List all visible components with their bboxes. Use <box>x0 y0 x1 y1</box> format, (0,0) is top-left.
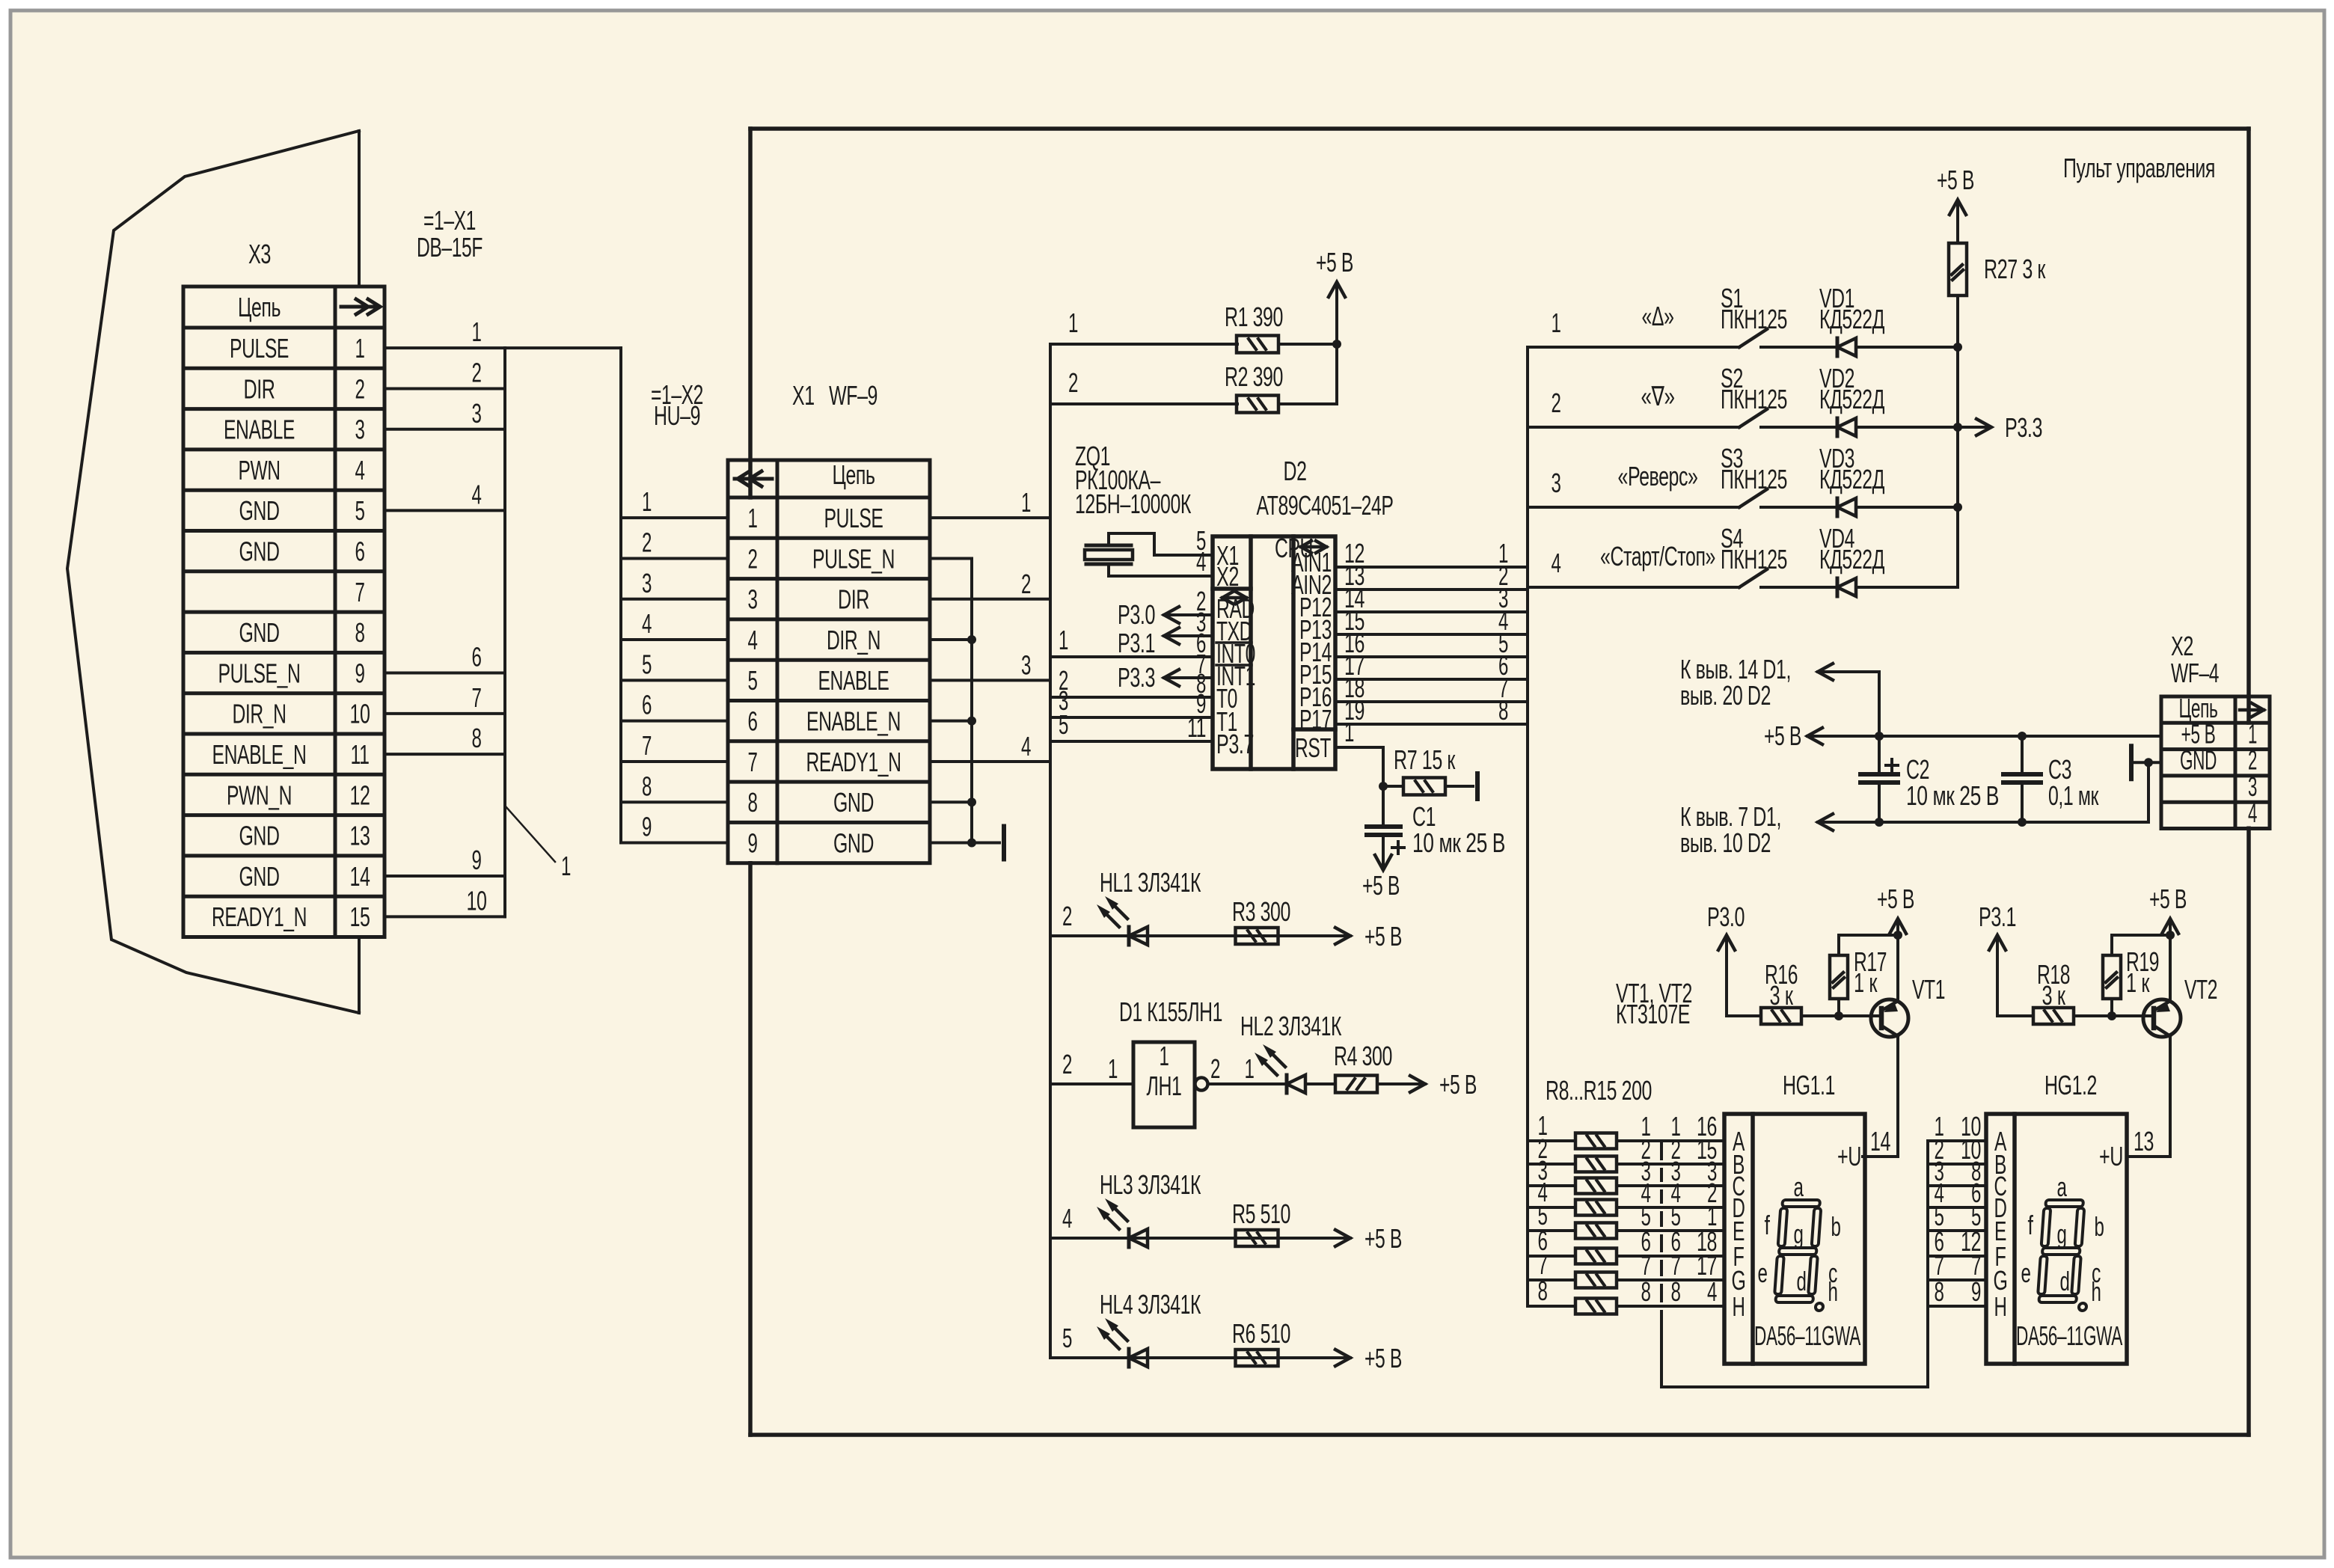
svg-text:1: 1 <box>1552 307 1561 338</box>
svg-text:WF–4: WF–4 <box>2171 658 2219 688</box>
resistor R17 <box>1830 955 1848 999</box>
svg-text:+U: +U <box>1837 1141 1861 1172</box>
resistor R9 <box>1575 1157 1617 1172</box>
svg-text:+5 В: +5 В <box>1364 1223 1402 1254</box>
svg-text:+5 В: +5 В <box>1439 1069 1477 1100</box>
svg-text:DB–15F: DB–15F <box>417 232 483 263</box>
wire R2 to +5V node <box>1278 344 1337 404</box>
junction +5V node <box>1332 340 1341 349</box>
wire CPU P12 pin 14 (net 3) <box>1335 610 1528 613</box>
junction RST node <box>1379 782 1388 791</box>
wire bus to INT0 <box>1050 655 1213 658</box>
wire X3 pin 15 (net 10) <box>385 915 505 918</box>
svg-text:f: f <box>1765 1210 1771 1240</box>
junction <box>2144 758 2153 767</box>
switch S3 ПКН125 <box>1739 489 1767 507</box>
wire X3 pin 5 (net 4) <box>385 509 505 512</box>
wire R14 to HG1.1 pin 17 <box>1617 1278 1724 1281</box>
wire net 2 to R2 <box>1050 402 1237 405</box>
svg-text:HG1.2: HG1.2 <box>2044 1070 2097 1100</box>
svg-text:9: 9 <box>355 658 365 688</box>
svg-text:ENABLE_N: ENABLE_N <box>212 739 307 770</box>
svg-text:2: 2 <box>1210 1053 1220 1084</box>
wire D1 out to HL2 <box>1208 1082 1287 1085</box>
wire harness net 6 to R13 <box>1528 1255 1575 1258</box>
wire VT1 collector to HG1.1 +U <box>1863 1036 1898 1157</box>
svg-text:PULSE: PULSE <box>230 333 289 364</box>
svg-text:GND: GND <box>239 536 280 567</box>
junction <box>2018 818 2027 827</box>
svg-text:HL4 ЗЛ341К: HL4 ЗЛ341К <box>1100 1289 1201 1320</box>
svg-text:12: 12 <box>350 780 370 810</box>
svg-text:6: 6 <box>748 706 758 737</box>
wire harness net 5 to R12 <box>1528 1229 1575 1232</box>
switch S2 ПКН125 <box>1739 409 1767 427</box>
wire harness net 5 to HG1.2 pin 5 <box>1928 1229 1986 1232</box>
svg-text:7: 7 <box>355 577 365 607</box>
resistor R19 <box>2103 955 2121 999</box>
wire CPU P16 pin 18 (net 7) <box>1335 700 1528 703</box>
svg-text:GND: GND <box>239 861 280 892</box>
wire cable net 4 to X1 pin 4 <box>621 638 728 641</box>
svg-text:P3.0: P3.0 <box>1707 901 1745 932</box>
wire P3.1 arrow up <box>1996 937 1999 1016</box>
svg-text:P17: P17 <box>1299 704 1332 735</box>
svg-text:«Δ»: «Δ» <box>1642 301 1674 331</box>
svg-text:h: h <box>1828 1276 1838 1307</box>
X1 header socket symbol <box>735 477 772 481</box>
wire bus to T0 <box>1050 696 1213 699</box>
wire X1 DIR (net 2) <box>930 598 1050 601</box>
svg-text:f: f <box>2028 1210 2034 1240</box>
svg-text:+5 В: +5 В <box>2149 883 2187 914</box>
transistor VT1 КТ3107Е <box>1871 999 1908 1037</box>
resistor R16 <box>1761 1008 1801 1024</box>
wire X1 ENABLE (net 3) <box>930 679 1050 682</box>
wire stub X1 GND <box>930 800 972 803</box>
svg-text:d: d <box>1797 1266 1807 1296</box>
svg-text:10: 10 <box>467 885 487 916</box>
wire cable net 5 to X1 pin 5 <box>621 679 728 682</box>
svg-text:10 мк 25 В: 10 мк 25 В <box>1906 780 1999 811</box>
resistor R18 <box>2033 1008 2074 1024</box>
capacitor C2 <box>1878 736 1881 774</box>
svg-text:AT89C4051–24P: AT89C4051–24P <box>1257 490 1394 521</box>
wire stub X1 DIR_N <box>930 638 972 641</box>
svg-text:R5 510: R5 510 <box>1232 1198 1290 1229</box>
svg-text:g: g <box>1794 1219 1804 1249</box>
svg-text:ENABLE_N: ENABLE_N <box>806 706 901 737</box>
svg-text:14: 14 <box>1870 1126 1890 1157</box>
wire VD2 to key bus <box>1856 426 1958 429</box>
svg-text:5: 5 <box>355 495 365 526</box>
svg-text:2: 2 <box>1062 901 1072 931</box>
svg-text:выв. 10 D2: выв. 10 D2 <box>1680 827 1771 858</box>
svg-text:X2: X2 <box>2171 631 2193 661</box>
junction <box>1953 343 1962 352</box>
wire R17 to +5V <box>1839 935 1898 955</box>
junction <box>1893 931 1902 940</box>
svg-text:a: a <box>2057 1172 2068 1202</box>
svg-text:VT2: VT2 <box>2184 974 2217 1005</box>
svg-text:13: 13 <box>350 821 370 851</box>
svg-text:8: 8 <box>1935 1276 1944 1307</box>
svg-text:1: 1 <box>1344 717 1354 747</box>
wire harness net 6 to HG1.2 pin 12 <box>1928 1255 1986 1258</box>
svg-text:2: 2 <box>355 373 365 404</box>
svg-text:+5 В: +5 В <box>1364 921 1402 952</box>
microcontroller D2 AT89C4051-24P <box>1213 536 1335 769</box>
svg-text:DIR_N: DIR_N <box>827 625 880 655</box>
svg-text:GND: GND <box>239 495 280 526</box>
cable bus (=1-X2 side) <box>503 348 506 916</box>
svg-text:КД522Д: КД522Д <box>1819 304 1884 334</box>
wire R18 to VT2 base <box>2074 1014 2150 1017</box>
svg-text:d: d <box>2060 1266 2070 1296</box>
resistor R2 <box>1237 396 1278 413</box>
svg-text:P3.1: P3.1 <box>1118 628 1155 658</box>
svg-text:X3: X3 <box>248 239 271 269</box>
svg-text:DIR: DIR <box>838 584 869 615</box>
svg-text:4: 4 <box>642 608 652 639</box>
svg-text:R3 300: R3 300 <box>1232 896 1290 927</box>
segment harness bottom link <box>1661 1385 1928 1388</box>
segment harness HG1.1 side <box>1660 1141 1663 1159</box>
wire R13 to HG1.1 pin 18 <box>1617 1255 1724 1258</box>
svg-text:8: 8 <box>472 723 482 753</box>
wire R7 to ground <box>1445 785 1473 788</box>
LED HL2 <box>1285 1075 1289 1093</box>
capacitor C3 <box>2021 736 2024 774</box>
svg-text:+5 В: +5 В <box>1764 720 1801 751</box>
wire harness net 4 to HG1.2 pin 6 <box>1928 1206 1986 1209</box>
svg-text:3: 3 <box>748 584 758 615</box>
svg-text:+5 В: +5 В <box>1877 883 1914 914</box>
svg-text:R27 3 к: R27 3 к <box>1984 254 2046 284</box>
power +5V arrow VT1 <box>1896 922 1899 935</box>
CPU port direction arrows <box>1301 545 1326 549</box>
svg-text:4: 4 <box>748 625 758 655</box>
wire CPU AIN2 pin 13 (net 2) <box>1335 588 1528 591</box>
svg-text:2: 2 <box>472 357 482 388</box>
power +5V arrow R27 <box>1956 203 1959 243</box>
wire stub X1 PULSE_N <box>930 557 972 560</box>
svg-text:8: 8 <box>1538 1275 1548 1306</box>
control panel box (Пульт управления) <box>750 126 2249 131</box>
LED HL3 <box>1127 1229 1131 1247</box>
svg-text:КД522Д: КД522Д <box>1819 464 1884 494</box>
wire ground rail <box>1818 821 2148 824</box>
wire harness net 2 to R9 <box>1528 1163 1575 1166</box>
svg-text:PWN: PWN <box>239 455 281 486</box>
svg-text:КД522Д: КД522Д <box>1819 384 1884 414</box>
wire harness net 8 to HG1.2 pin 9 <box>1928 1305 1986 1308</box>
svg-text:12БН–10000К: 12БН–10000К <box>1075 489 1191 519</box>
switch S1 ПКН125 <box>1739 329 1767 347</box>
wire harness net 3 to HG1.2 pin 8 <box>1928 1184 1986 1187</box>
svg-text:4: 4 <box>1707 1276 1717 1307</box>
svg-text:b: b <box>1831 1211 1841 1242</box>
svg-text:«Старт/Стоп»: «Старт/Стоп» <box>1600 541 1715 572</box>
wire X3 pin 10 (net 7) <box>385 712 505 715</box>
svg-text:9: 9 <box>1971 1276 1981 1307</box>
7-segment display HG1.1 DA56-11GWA <box>1724 1114 1865 1364</box>
svg-text:+U: +U <box>2099 1141 2123 1172</box>
junction <box>967 797 976 806</box>
junction <box>967 635 976 644</box>
cable shield outline for X3 <box>67 131 359 1013</box>
svg-text:ПКН125: ПКН125 <box>1721 544 1787 575</box>
svg-text:DA56–11GWA: DA56–11GWA <box>1754 1320 1860 1351</box>
svg-text:X1 WF–9: X1 WF–9 <box>792 380 877 411</box>
wire X3 pin 9 (net 6) <box>385 672 505 675</box>
ground tick X1 <box>972 842 999 845</box>
svg-text:h: h <box>2092 1276 2101 1307</box>
wire harness net 2 to S2 <box>1528 426 1739 429</box>
svg-text:4: 4 <box>1062 1203 1072 1234</box>
junction <box>967 839 976 848</box>
svg-text:ЛН1: ЛН1 <box>1147 1071 1182 1101</box>
LED HL1 <box>1127 927 1131 945</box>
svg-text:6: 6 <box>355 536 365 567</box>
7-segment display HG1.2 DA56-11GWA <box>1986 1114 2127 1364</box>
harness bus from CPU to switches and resistors <box>1526 347 1529 1306</box>
wire CPU P17 pin 19 (net 8) <box>1335 723 1528 726</box>
wire +5V rail to X2 <box>1807 735 2161 738</box>
svg-text:DIR_N: DIR_N <box>233 699 287 729</box>
wire P3.3 arrow <box>1164 676 1213 679</box>
wire crystal to X1 pin <box>1109 533 1213 555</box>
svg-text:3: 3 <box>642 568 652 598</box>
svg-text:HL1 ЗЛ341К: HL1 ЗЛ341К <box>1100 867 1201 898</box>
svg-text:g: g <box>2057 1219 2067 1249</box>
svg-text:P3.0: P3.0 <box>1118 599 1155 630</box>
wire harness net 3 to S3 <box>1528 506 1739 509</box>
svg-text:5: 5 <box>642 649 652 679</box>
resistor R6 <box>1236 1350 1278 1366</box>
svg-text:1: 1 <box>1021 487 1031 518</box>
resistor R11 <box>1575 1200 1617 1216</box>
svg-text:«Реверс»: «Реверс» <box>1618 461 1698 491</box>
wire bus to HL1 <box>1050 934 1350 937</box>
wire R9 to HG1.1 pin 15 <box>1617 1163 1724 1166</box>
junction <box>2107 1011 2116 1020</box>
wire bus to T1 <box>1050 716 1213 719</box>
wire X3 pin 3 (net 3) <box>385 428 505 431</box>
svg-text:8: 8 <box>1498 695 1508 726</box>
crystal ZQ1 <box>1086 544 1131 548</box>
svg-text:КД522Д: КД522Д <box>1819 544 1884 575</box>
diode VD3 КД522Д <box>1836 498 1840 516</box>
wire VD4 to key bus <box>1856 586 1958 589</box>
svg-text:14: 14 <box>350 861 370 892</box>
wire net 1 to R1 <box>1050 343 1237 346</box>
svg-text:P3.7: P3.7 <box>1216 729 1254 759</box>
wire cable net 6 to X1 pin 6 <box>621 720 728 723</box>
svg-text:a: a <box>1794 1172 1804 1202</box>
svg-text:GND: GND <box>833 827 874 858</box>
svg-text:e: e <box>2021 1258 2031 1288</box>
svg-text:3: 3 <box>355 414 365 445</box>
svg-text:выв. 20 D2: выв. 20 D2 <box>1680 680 1771 711</box>
svg-text:HL2 ЗЛ341К: HL2 ЗЛ341К <box>1240 1011 1341 1041</box>
wire R15 to HG1.1 pin 4 <box>1617 1305 1724 1308</box>
wire R12 to HG1.1 pin 1 <box>1617 1229 1724 1232</box>
ground tick X2 <box>2129 746 2134 779</box>
svg-text:10: 10 <box>350 699 370 729</box>
bus from X1 to CPU and LEDs <box>1049 344 1052 1358</box>
svg-text:X2: X2 <box>1216 561 1239 592</box>
svg-text:1: 1 <box>355 333 365 364</box>
svg-text:4: 4 <box>1196 546 1206 577</box>
svg-text:GND: GND <box>239 821 280 851</box>
wire P3.1 arrow <box>1164 634 1213 637</box>
svg-text:ENABLE: ENABLE <box>818 665 889 696</box>
wire cable net 3 to X1 pin 3 <box>621 598 728 601</box>
svg-text:Цепь: Цепь <box>238 292 281 322</box>
diode VD1 КД522Д <box>1836 338 1840 356</box>
wire R4 to +5V <box>1377 1082 1425 1085</box>
junction <box>1834 1011 1843 1020</box>
wire CPU P13 pin 15 (net 4) <box>1335 633 1528 636</box>
cable designation leader 1 <box>505 806 555 862</box>
wire X1 READY1_N (net 4) <box>930 760 1050 763</box>
junction <box>2018 732 2027 741</box>
wire cable net 8 to X1 pin 8 <box>621 800 728 803</box>
svg-text:H: H <box>1994 1291 2007 1322</box>
wire harness net 2 to HG1.2 pin 10 <box>1928 1163 1986 1166</box>
svg-text:3 к: 3 к <box>1770 980 1794 1011</box>
wire P3.1 to R18 <box>1997 1014 2033 1017</box>
diode VD4 КД522Д <box>1836 578 1840 596</box>
svg-text:9: 9 <box>748 827 758 858</box>
svg-text:2: 2 <box>1552 388 1561 418</box>
svg-text:DA56–11GWA: DA56–11GWA <box>2016 1320 2122 1351</box>
svg-text:P3.1: P3.1 <box>1979 901 2016 932</box>
svg-text:11: 11 <box>351 739 370 770</box>
svg-text:PULSE_N: PULSE_N <box>812 543 895 574</box>
svg-text:1: 1 <box>1245 1053 1255 1084</box>
resistor R7 <box>1383 785 1403 788</box>
svg-text:READY1_N: READY1_N <box>212 901 307 932</box>
svg-text:5: 5 <box>748 665 758 696</box>
svg-text:+5 В: +5 В <box>1937 165 1974 195</box>
svg-text:READY1_N: READY1_N <box>806 747 901 777</box>
wire cable net 1 to X1 pin 1 <box>621 516 728 519</box>
svg-text:H: H <box>1733 1291 1745 1322</box>
svg-text:P3.3: P3.3 <box>2005 412 2042 443</box>
arrow +5V <box>1335 1350 1350 1366</box>
wire X1 PULSE (net 1) <box>930 516 1050 519</box>
svg-text:Пульт управления: Пульт управления <box>2063 153 2215 183</box>
svg-text:2: 2 <box>1068 367 1078 398</box>
svg-text:7: 7 <box>748 747 758 777</box>
wire R10 to HG1.1 pin 3 <box>1617 1184 1724 1187</box>
svg-text:3: 3 <box>472 398 482 429</box>
svg-text:R4 300: R4 300 <box>1334 1041 1392 1071</box>
wire R1 to +5V node <box>1278 343 1337 346</box>
svg-text:4: 4 <box>2248 797 2257 828</box>
power +5V arrow <box>1335 285 1338 344</box>
svg-text:ПКН125: ПКН125 <box>1721 464 1787 494</box>
wire R19 to +5V <box>2112 935 2170 955</box>
svg-text:1 к: 1 к <box>2126 967 2150 998</box>
svg-text:0,1 мк: 0,1 мк <box>2048 780 2099 811</box>
wire P3.0 arrow up <box>1725 937 1728 1016</box>
svg-text:ПКН125: ПКН125 <box>1721 384 1787 414</box>
wire harness net 4 to S4 <box>1528 586 1739 589</box>
svg-text:4: 4 <box>1021 731 1031 762</box>
LED HL4 <box>1127 1349 1131 1367</box>
wire harness net 4 to R11 <box>1528 1206 1575 1209</box>
C1 polarity + <box>1392 846 1404 849</box>
wire X3 pin 1 (net 1) <box>385 346 505 349</box>
svg-text:1: 1 <box>1059 625 1068 655</box>
arrow +5V <box>1335 1230 1350 1246</box>
resistor R12 <box>1575 1223 1617 1239</box>
segment harness HG1.2 side <box>1926 1141 1929 1387</box>
svg-text:4: 4 <box>355 455 365 486</box>
wire to D1/D2 power pins <box>1818 672 1879 736</box>
resistor R27 <box>1949 243 1967 295</box>
svg-text:1: 1 <box>642 486 652 517</box>
wire harness net 1 to S1 <box>1528 346 1739 349</box>
wire crystal to X2 pin <box>1109 564 1213 576</box>
svg-text:1: 1 <box>748 503 758 533</box>
wire CPU P15 pin 17 (net 6) <box>1335 678 1528 681</box>
svg-text:R7 15 к: R7 15 к <box>1394 744 1456 775</box>
wire CPU P14 pin 16 (net 5) <box>1335 655 1528 658</box>
transistor VT2 КТ3107Е <box>2143 999 2181 1037</box>
wire harness net 3 to R10 <box>1528 1184 1575 1187</box>
svg-text:2: 2 <box>1062 1049 1072 1079</box>
wire R16 to VT1 base <box>1801 1014 1878 1017</box>
svg-text:HU–9: HU–9 <box>654 400 700 431</box>
svg-text:8: 8 <box>355 617 365 648</box>
connector X1 table <box>728 460 930 863</box>
svg-text:R1 390: R1 390 <box>1225 301 1283 332</box>
svg-text:8: 8 <box>642 771 652 801</box>
wire stub X1 ENABLE_N <box>930 720 972 723</box>
wire X3 pin 2 (net 2) <box>385 387 505 390</box>
svg-text:8: 8 <box>1671 1276 1681 1307</box>
wire RST <box>1335 747 1383 786</box>
mini bus X1 N-nets <box>970 558 973 842</box>
svg-text:9: 9 <box>472 845 482 875</box>
power +5V down arrow C1 <box>1382 835 1385 867</box>
svg-text:1: 1 <box>1108 1053 1118 1084</box>
C2 polarity + <box>1886 764 1898 767</box>
resistor R3 <box>1236 928 1278 944</box>
resistor R8 <box>1575 1133 1617 1149</box>
wire cable net 7 to X1 pin 7 <box>621 760 728 763</box>
svg-text:15: 15 <box>350 901 370 932</box>
wire X3 pin 11 (net 8) <box>385 753 505 756</box>
resistor R1 <box>1237 336 1278 353</box>
svg-text:e: e <box>1758 1258 1768 1288</box>
svg-text:6: 6 <box>642 690 652 720</box>
svg-text:8: 8 <box>748 787 758 818</box>
svg-text:GND: GND <box>2180 745 2217 776</box>
wire P3.0 arrow <box>1164 613 1213 616</box>
wire R11 to HG1.1 pin 2 <box>1617 1206 1724 1209</box>
X3 header plug symbol <box>341 305 377 309</box>
ground tick R7 <box>1475 774 1480 799</box>
svg-text:3 к: 3 к <box>2042 980 2066 1011</box>
svg-text:PULSE_N: PULSE_N <box>218 658 301 688</box>
wire harness net 8 to R15 <box>1528 1305 1575 1308</box>
wire VT2 collector to HG1.2 +U <box>2130 1036 2170 1157</box>
